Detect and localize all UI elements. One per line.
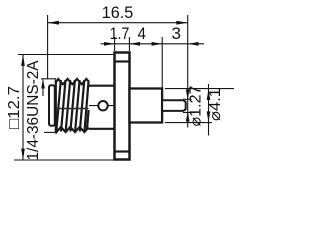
- dim 16.5 arrow right: [176, 21, 187, 25]
- thread start flank: [55, 80, 57, 133]
- dim 12.7 arrow bottom: [21, 149, 25, 160]
- svg-text:1.7: 1.7: [110, 25, 130, 43]
- dim right master extension line: [187, 15, 189, 128]
- pin top ext: [183, 98, 192, 100]
- row2 dim line: [101, 43, 205, 45]
- dia 4.1 arrow bottom: [207, 111, 211, 122]
- ext rear body right: [161, 37, 163, 88]
- arrow tip flange left: [104, 42, 115, 46]
- contact pin: [162, 100, 186, 111]
- svg-text:1/4-36UNS-2A: 1/4-36UNS-2A: [25, 60, 42, 160]
- thread mid shading line: [56, 108, 89, 110]
- flange corner line top: [115, 60, 130, 62]
- rear body: [130, 89, 163, 123]
- thread leader arrow: [42, 80, 44, 97]
- dim 12.7 ext top: [18, 54, 114, 56]
- svg-text:4: 4: [138, 25, 147, 43]
- flange: [115, 53, 130, 160]
- thread major ext top: [41, 78, 56, 80]
- ext flange right: [128, 37, 130, 51]
- dia 4.1 ext bottom: [165, 122, 212, 124]
- arrow tip pin end: [188, 42, 199, 46]
- thread major ext bottom: [44, 131, 56, 133]
- thread bottom crest zigzag: [56, 127, 89, 132]
- svg-text:⌀1.27: ⌀1.27: [188, 86, 205, 127]
- dia 4.1 arrow top: [207, 89, 211, 100]
- thread top crest zigzag: [56, 79, 89, 84]
- dia 1.27 arrow bottom: [186, 111, 190, 122]
- dim 12.7 line: [22, 55, 24, 161]
- smooth barrel section: [89, 86, 115, 129]
- arrow tip flange right: [129, 42, 140, 46]
- dim 16.5 extension left: [47, 15, 49, 79]
- svg-text:⌀4.1: ⌀4.1: [207, 88, 224, 121]
- svg-text:□12.7: □12.7: [6, 86, 23, 129]
- thread flank hatching: [56, 80, 88, 132]
- dia 1.27 arrow top: [186, 90, 190, 101]
- dia 4.1 ext top: [165, 88, 234, 90]
- barrel hole: [98, 101, 107, 110]
- svg-text:16.5: 16.5: [102, 3, 134, 22]
- dim 16.5 arrow left: [48, 21, 59, 25]
- dim 16.5 line: [48, 22, 188, 24]
- pin bottom ext: [183, 112, 195, 114]
- dia 4.1 dim line: [208, 84, 210, 136]
- dim 12.7 arrow top: [21, 55, 25, 66]
- arrow tip body right: [152, 42, 163, 46]
- thread relief end cap: [49, 85, 55, 126]
- ext flange left: [114, 37, 116, 51]
- svg-text:3: 3: [172, 25, 182, 43]
- center line axis: [89, 105, 162, 107]
- dim 12.7 ext bottom: [14, 159, 114, 161]
- flange corner line bottom: [115, 150, 130, 152]
